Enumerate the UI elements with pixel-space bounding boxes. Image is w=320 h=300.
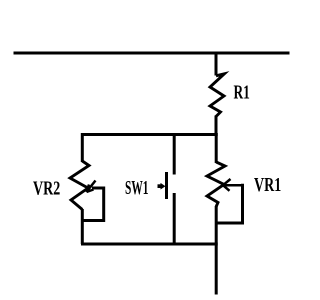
switch SW1 bottom lead <box>173 193 176 246</box>
wire: bottom horizontal rail <box>81 243 218 246</box>
wire: VR2 wiper loop to bottom terminal <box>83 188 104 221</box>
wire: top supply rail <box>14 52 290 55</box>
wire: VR1 wiper loop to bottom terminal <box>217 185 243 223</box>
switch SW1 contact bar <box>165 172 168 199</box>
wire: R1 top lead from top rail <box>215 53 218 76</box>
wire: VR1 top lead <box>215 133 218 163</box>
svg-text:VR2: VR2 <box>33 177 60 199</box>
potentiometer VR1 wiper arrow <box>223 179 241 191</box>
resistor R1 <box>210 74 224 117</box>
svg-text:VR1: VR1 <box>254 173 281 195</box>
wire: VR1 bottom lead / output line to bottom edge <box>215 206 218 295</box>
wire: middle horizontal rail <box>81 133 218 136</box>
wire: VR2 top lead <box>81 133 84 162</box>
potentiometer VR1 body <box>207 162 225 207</box>
svg-text:SW1: SW1 <box>125 177 148 199</box>
wire: VR2 bottom lead <box>81 209 84 244</box>
switch SW1 actuator arrow <box>158 183 166 190</box>
svg-text:R1: R1 <box>234 81 250 103</box>
wire: R1 bottom lead <box>215 116 218 137</box>
potentiometer VR2 body <box>70 161 89 210</box>
potentiometer VR2 wiper arrow <box>87 181 96 193</box>
switch SW1 top lead <box>173 133 176 175</box>
